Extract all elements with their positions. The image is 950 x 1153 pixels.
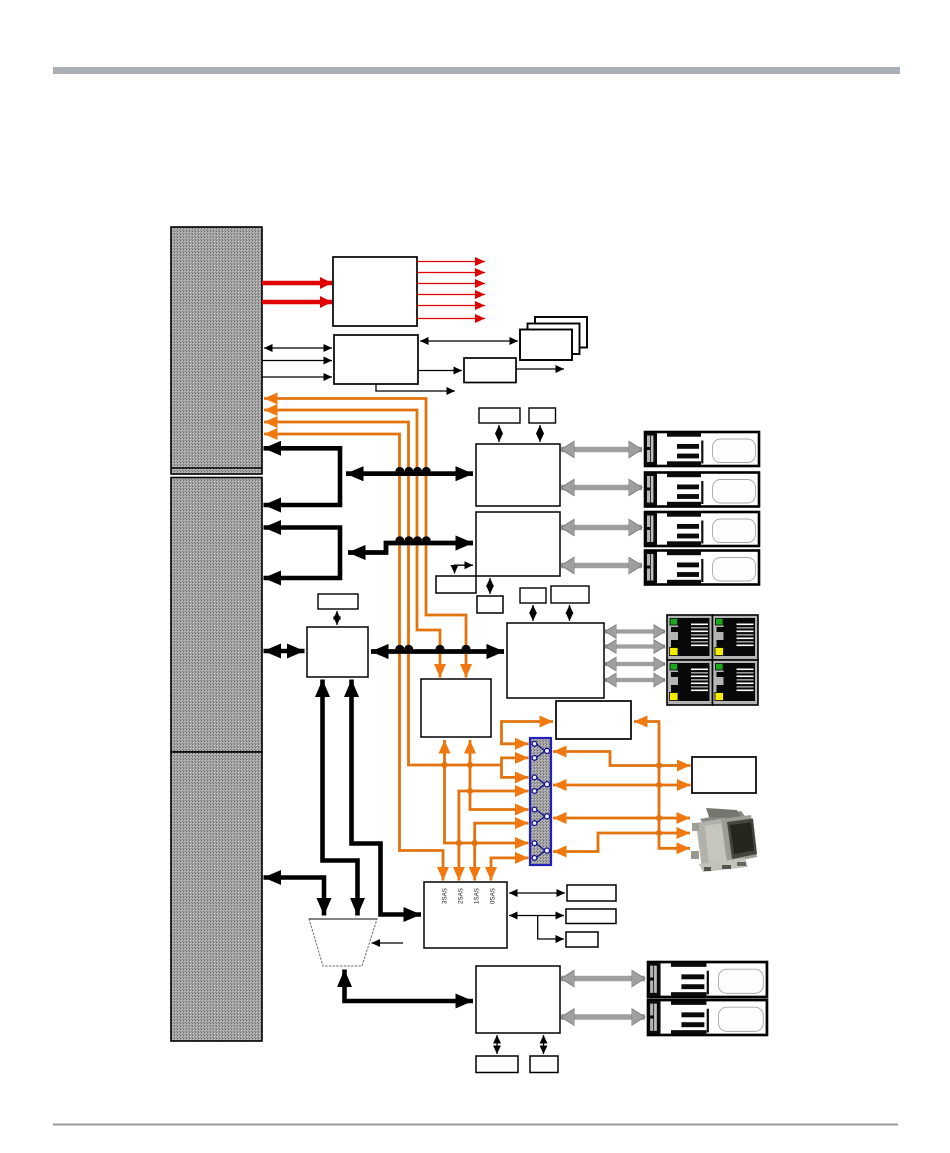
wire bracket2 to HT block B jog <box>348 543 473 553</box>
wire line to U2 a <box>262 360 332 362</box>
wire NIC top 2 <box>569 605 571 621</box>
wire bracket1 to HT block A <box>346 471 473 476</box>
wire red channel 2 <box>262 300 332 305</box>
wire expander up link 1 <box>445 740 529 843</box>
small box above A left <box>479 408 520 423</box>
wire boot to small box 2 <box>543 1035 545 1054</box>
svg-text:2SAS: 2SAS <box>458 888 465 904</box>
wire boot to small box 1 <box>496 1035 498 1054</box>
bottom rule line <box>53 1124 898 1126</box>
wire U3 out right <box>516 368 564 370</box>
block flash right 1 <box>567 885 616 901</box>
wire expander up link 2 <box>470 740 529 810</box>
gray enet arrow 2 <box>605 644 665 648</box>
disk drive 5 <box>648 962 767 997</box>
gray enet arrow 4 <box>605 678 665 682</box>
wire mux out1 to serial box <box>553 752 691 766</box>
block B disk controller 2 <box>476 512 560 576</box>
mux switch symbol 3 <box>532 807 550 825</box>
CPU/bus hatched column segment 2 <box>171 478 262 753</box>
block serial concentrator <box>692 757 756 793</box>
block U2 bridge <box>334 335 418 384</box>
wire trapezoid to boot box <box>345 970 474 1002</box>
wire mux pin2 pin3 bracket <box>502 758 529 778</box>
wire mux out4 to vga <box>553 833 690 852</box>
disk drive 3 <box>645 512 759 546</box>
gray SATA arrow 1 <box>561 447 642 453</box>
mux switch symbol 2 <box>532 775 550 793</box>
CPU/bus hatched column segment 1 <box>171 227 262 474</box>
wire NIC top 1 <box>532 605 534 621</box>
wire U2 to modules bidir <box>420 340 518 342</box>
wire bus bidir to U2 <box>264 347 332 349</box>
stacked modules middle <box>528 324 580 355</box>
ethernet jack 3 <box>667 660 713 705</box>
fan mux trapezoid <box>309 919 377 966</box>
block SAS expander <box>421 679 491 737</box>
wire U2 to U3 <box>418 370 462 372</box>
small box above NIC right <box>551 586 589 603</box>
wire red out 5 <box>417 305 485 307</box>
wire box to A vert 2 <box>539 425 541 442</box>
wire U2 bottom elbow out <box>376 384 455 391</box>
wire mux pin8 to SAS0 <box>491 858 529 881</box>
wire branch to flash3 <box>538 916 564 940</box>
mux switch symbol 1 <box>532 741 550 760</box>
wire SAS to flash1 <box>509 892 565 894</box>
block NIC <box>507 623 604 698</box>
wire southbridge to NIC thick <box>371 649 504 654</box>
gray SATA arrow 2 <box>561 485 642 491</box>
wire red out 4 <box>417 294 485 296</box>
gray enet arrow 3 <box>605 662 665 666</box>
block above southbridge <box>318 594 358 609</box>
wire pcie lane 3 H1 <box>264 422 502 765</box>
wire red channel 1 <box>262 281 332 286</box>
stacked modules front <box>520 330 572 361</box>
wire mux pin6 to SAS1 <box>475 823 529 880</box>
block bottom small 1 <box>476 1056 518 1073</box>
ethernet jack 1 <box>667 615 713 660</box>
wire mux pin4 to SAS2 <box>459 791 529 881</box>
elbow arrow into B and S2 <box>455 565 474 573</box>
junction dots <box>441 762 662 846</box>
block S3 <box>477 596 503 613</box>
gray boot disk arrow 2 <box>561 1014 645 1020</box>
bracket 1 top arm <box>264 448 341 505</box>
disk drive 2 <box>645 473 759 507</box>
wire box to A vert 1 <box>498 425 500 442</box>
block U1 memory controller <box>333 257 417 326</box>
disk drive 6 <box>648 1000 767 1035</box>
wire red out 2 <box>417 272 485 274</box>
wire to southbridge top <box>336 611 338 625</box>
wire line to U2 b <box>262 376 332 378</box>
block SAS controller <box>424 882 507 948</box>
svg-text:0SAS: 0SAS <box>490 888 497 904</box>
wire bracket1 to HT block A redraw over orange <box>346 471 473 476</box>
block U3 small <box>464 358 516 383</box>
wire mux out2 to serial box <box>553 784 691 787</box>
wire red out 3 <box>417 283 485 285</box>
stacked modules back <box>535 317 587 348</box>
block service processor <box>556 701 631 739</box>
block bottom small 2 <box>530 1056 558 1073</box>
block A disk controller 1 <box>476 444 560 506</box>
block flash right 3 <box>566 932 598 947</box>
wire red out 1 <box>417 261 485 263</box>
wire to SP left and mux pin1 <box>502 722 554 744</box>
ethernet jack 4 <box>713 660 759 705</box>
CPU/bus hatched column segment 3 <box>171 752 262 1041</box>
wire mux out3 to vga <box>553 817 690 820</box>
svg-text:3SAS: 3SAS <box>442 888 449 904</box>
small box above A right <box>529 408 556 423</box>
bracket 2 <box>264 528 341 579</box>
disk drive 4 <box>645 551 759 585</box>
mux switch symbol 4 <box>532 841 550 861</box>
gray enet arrow 1 <box>605 629 665 633</box>
block southbridge <box>307 627 368 677</box>
small box above NIC left <box>520 588 546 603</box>
wire southbridge down leg B to SAS <box>352 680 422 915</box>
block video mux <box>530 738 551 865</box>
top rule bar <box>53 67 900 74</box>
wire pcie lane 1 into column <box>264 399 466 678</box>
gray SATA arrow 4 <box>561 563 642 569</box>
wire SAS to flash2 <box>509 915 564 917</box>
block boot controller <box>476 966 560 1033</box>
wire pcie lane 2 into column <box>264 410 440 678</box>
wire column to fan mux <box>264 878 325 916</box>
wire southbridge to NIC redraw over orange <box>371 649 504 654</box>
svg-text:1SAS: 1SAS <box>474 888 481 904</box>
wire southbridge down leg A <box>323 680 358 916</box>
block S2 <box>436 576 476 593</box>
wire red out 6 <box>417 318 485 320</box>
gray SATA arrow 3 <box>561 525 642 531</box>
wire B to S3 <box>489 578 491 594</box>
wire stub into trapezoid right <box>372 942 404 944</box>
wire hop bumps <box>395 467 470 649</box>
block flash right 2 <box>566 909 616 924</box>
disk drive 1 <box>645 432 759 466</box>
wire column to southbridge thick <box>264 649 305 654</box>
wire pcie lane 4 to SAS3 <box>264 434 443 881</box>
wire bracket2 to HT block B redraw over orange <box>348 543 473 553</box>
vga connector photo <box>691 808 757 872</box>
ethernet jack 2 <box>713 615 759 660</box>
gray boot disk arrow 1 <box>561 976 645 982</box>
wire SP right net to vga <box>634 722 690 849</box>
